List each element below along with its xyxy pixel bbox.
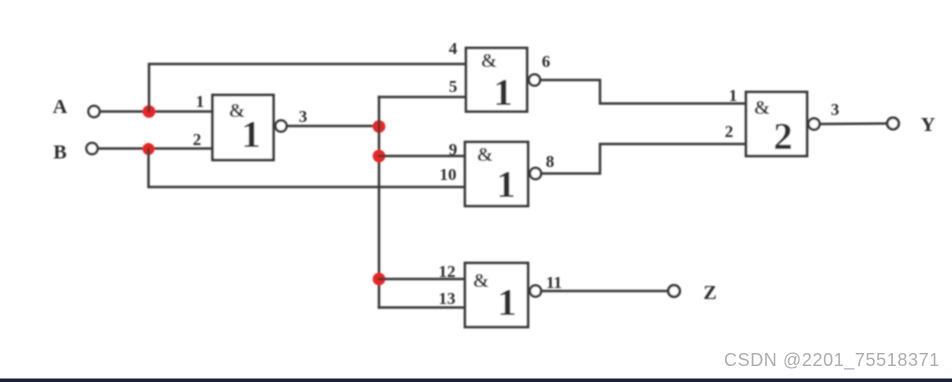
node junction on B <box>143 143 155 155</box>
svg-text:1: 1 <box>729 86 738 105</box>
U1B output bubble <box>529 74 540 85</box>
svg-text:9: 9 <box>449 140 458 159</box>
svg-text:12: 12 <box>439 262 456 281</box>
svg-text:2: 2 <box>774 116 793 158</box>
svg-text:1: 1 <box>196 92 205 111</box>
wire U1D output to terminal Z <box>541 290 667 293</box>
svg-text:5: 5 <box>449 77 458 96</box>
op-amp U1C NAND gate body <box>465 142 528 206</box>
svg-text:1: 1 <box>497 164 516 206</box>
U1A output bubble <box>275 120 286 131</box>
input terminal A <box>88 106 99 117</box>
svg-text:B: B <box>53 142 66 164</box>
svg-text:Z: Z <box>703 282 716 304</box>
op-amp U2A NAND gate 2 body <box>746 92 807 156</box>
svg-text:8: 8 <box>546 152 555 171</box>
wire A to gate U1A pin 1 <box>100 110 213 113</box>
wire U2A output to terminal Y <box>820 122 886 125</box>
wire B to gate U1A pin 2 <box>98 147 213 150</box>
U1C output bubble <box>530 168 541 179</box>
wire trunk vertical <box>378 97 381 308</box>
op-amp U1D NAND gate body <box>465 263 528 327</box>
svg-text:1: 1 <box>498 282 517 324</box>
op-amp U1B NAND gate body <box>466 48 527 112</box>
svg-text:1: 1 <box>494 72 513 114</box>
wire A branch up <box>149 64 466 112</box>
svg-text:&: & <box>477 144 494 166</box>
wire U1C output to U2A pin 2 <box>541 144 746 174</box>
svg-text:11: 11 <box>546 273 562 292</box>
node junction pin 12 branch <box>373 273 386 286</box>
U2A output bubble <box>808 118 819 129</box>
svg-text:4: 4 <box>449 39 458 58</box>
node junction on A <box>143 105 156 118</box>
output terminal Z <box>668 285 680 297</box>
svg-text:&: & <box>754 97 771 119</box>
bottom bar <box>0 379 952 382</box>
svg-text:A: A <box>53 96 68 118</box>
wire trunk to U1B pin 5 <box>379 96 466 99</box>
wire trunk bottom to U1D pin 13 <box>379 306 465 309</box>
svg-text:&: & <box>473 270 490 292</box>
svg-text:1: 1 <box>242 114 261 156</box>
wire U1A output to trunk <box>287 125 379 128</box>
U1D output bubble <box>530 285 541 296</box>
wire trunk to U1C pin 9 <box>379 155 465 158</box>
svg-text:3: 3 <box>299 107 308 126</box>
svg-text:2: 2 <box>725 122 734 141</box>
svg-text:6: 6 <box>542 52 551 71</box>
op-amp U1A NAND gate 1 body <box>213 95 274 160</box>
wire trunk to U1D pin 12 <box>379 278 465 281</box>
node junction pin 9 branch <box>373 150 386 163</box>
svg-text:3: 3 <box>831 100 840 119</box>
output terminal Y <box>887 118 899 130</box>
node junction output 3 <box>373 120 386 133</box>
svg-text:&: & <box>481 50 498 72</box>
svg-text:10: 10 <box>440 165 457 184</box>
wire U1B output to U2A pin 1 <box>540 80 746 104</box>
svg-text:13: 13 <box>439 289 456 308</box>
svg-text:Y: Y <box>921 114 936 136</box>
svg-text:2: 2 <box>193 130 202 149</box>
wire B branch down <box>149 149 466 187</box>
input terminal B <box>86 143 97 154</box>
svg-text:CSDN @2201_75518371: CSDN @2201_75518371 <box>724 350 940 371</box>
